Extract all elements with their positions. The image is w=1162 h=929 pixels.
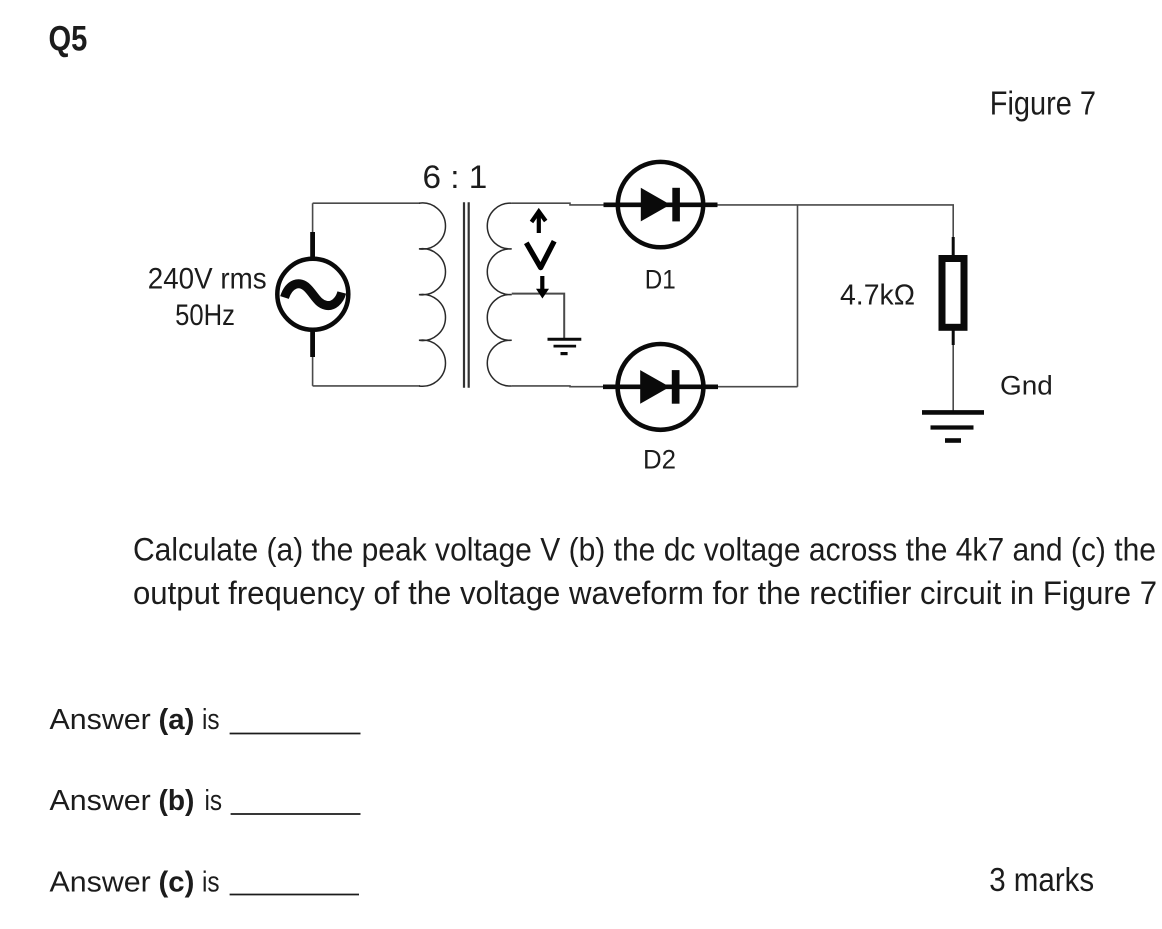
svg-text:4.7kΩ: 4.7kΩ xyxy=(840,280,915,312)
svg-text:Answer: Answer xyxy=(50,866,152,898)
svg-text:Gnd: Gnd xyxy=(1000,371,1053,401)
svg-text:(a): (a) xyxy=(159,704,195,736)
svg-text:Answer: Answer xyxy=(50,704,152,736)
svg-text:(c): (c) xyxy=(159,866,195,898)
svg-text:D2: D2 xyxy=(643,445,676,475)
svg-text:Figure 7: Figure 7 xyxy=(990,85,1096,122)
svg-text:3 marks: 3 marks xyxy=(989,861,1094,898)
svg-text:Q5: Q5 xyxy=(49,19,88,59)
svg-text:Calculate (a) the peak voltage: Calculate (a) the peak voltage V (b) the… xyxy=(133,532,1156,568)
svg-text:240V rms: 240V rms xyxy=(148,263,267,296)
svg-text:is: is xyxy=(202,866,220,898)
svg-text:Answer: Answer xyxy=(50,785,152,817)
svg-text:is: is xyxy=(202,704,220,736)
svg-text:output frequency of the voltag: output frequency of the voltage waveform… xyxy=(133,575,1157,611)
svg-text:50Hz: 50Hz xyxy=(175,299,235,332)
svg-text:(b): (b) xyxy=(159,785,195,817)
svg-text:is: is xyxy=(205,785,223,817)
svg-text:D1: D1 xyxy=(645,265,676,295)
svg-text:6 : 1: 6 : 1 xyxy=(423,159,488,195)
